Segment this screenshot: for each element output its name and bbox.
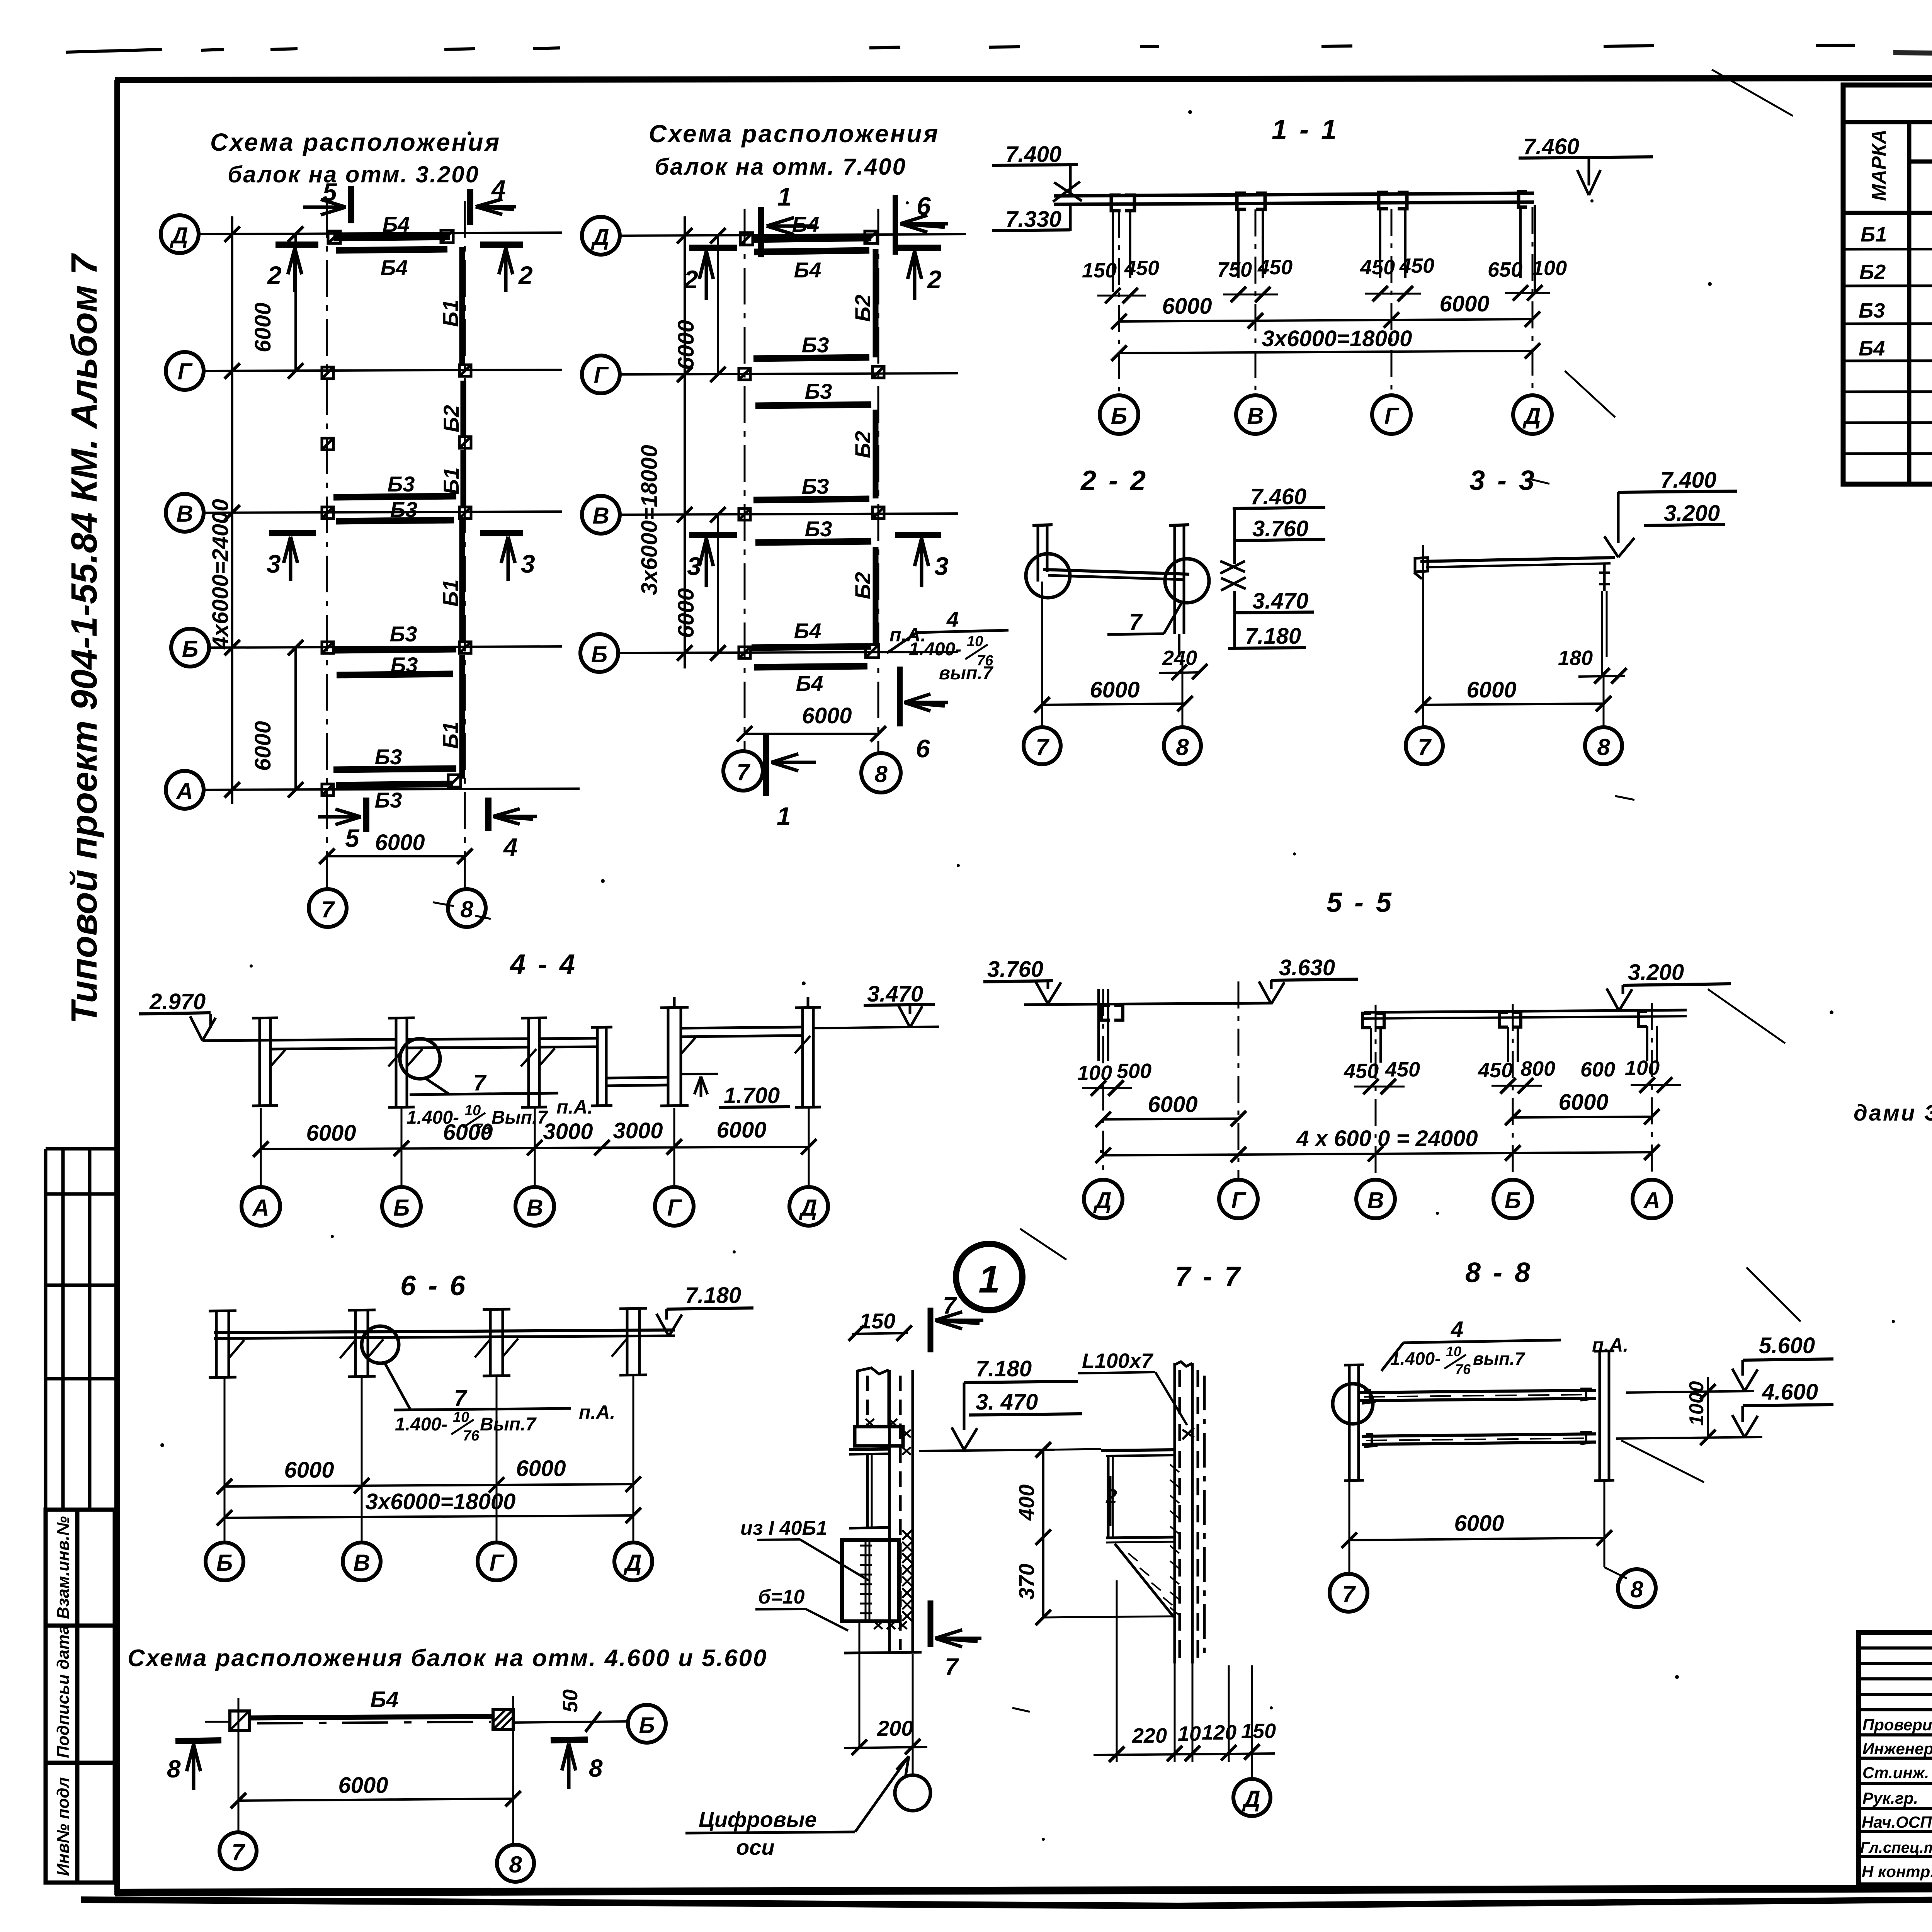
axis circle 8 plan3 [497,1845,534,1882]
svg-text:В: В [176,501,193,527]
axis circle Г sec4-4 [655,1187,694,1226]
svg-text:6000: 6000 [1090,677,1139,702]
svg-text:450: 450 [1399,254,1434,277]
svg-text:7: 7 [945,1654,959,1680]
dim 6000 lower left [294,648,297,790]
beam line top [1054,193,1534,196]
beam Б1 vertical axis8 seg1 [459,247,465,365]
axis circle Г [166,352,204,390]
svg-text:7.180: 7.180 [976,1356,1032,1381]
braces sec4-4 [270,1036,810,1066]
section flag 7 lower [928,1600,934,1647]
svg-text:7.400: 7.400 [1005,142,1061,167]
svg-text:Б3: Б3 [390,622,417,646]
beam Б2 vertical axis8 seg2 [461,381,466,437]
svg-text:Б3: Б3 [390,497,418,522]
svg-text:Проверил: Проверил [1862,1716,1932,1734]
section flag 3 right [480,530,523,536]
axis circle 8 sec3-3 [1585,727,1622,764]
svg-text:Б1: Б1 [1861,223,1887,246]
axis line В [203,512,562,513]
svg-text:Рук.гр.: Рук.гр. [1862,1789,1918,1807]
svg-text:А: А [175,778,193,804]
xxx hatch right strip node1 [902,1530,912,1621]
axis drops sec6-6 [224,1375,633,1542]
section flag 4 bottom [485,798,492,831]
bottom plate sec7-7 [1106,1537,1175,1538]
svg-text:6000: 6000 [1454,1511,1504,1536]
svg-text:800: 800 [1520,1057,1555,1080]
beam left sec7-7 [1101,1450,1175,1451]
axis line Д [620,234,966,236]
dim line 3x6000=18000 [684,216,686,668]
axis circle Г sec1-1 [1372,395,1411,434]
svg-text:Б: Б [639,1713,655,1738]
svg-text:6000: 6000 [516,1456,566,1481]
column bottom end node1 [844,1652,922,1653]
svg-text:1.400-: 1.400- [1390,1349,1440,1369]
table header lines [1843,122,1932,484]
left margin stamp boxes lower [46,1510,115,1883]
svg-text:10: 10 [967,633,983,650]
columns below beam sec1-1 [1113,205,1535,294]
beam Г-Д upper [682,1027,802,1028]
axis line А [203,789,580,790]
svg-text:3: 3 [267,549,281,578]
axis circle Г sec6-6 [478,1543,515,1580]
svg-text:МАРКА: МАРКА [1868,129,1890,201]
svg-text:5: 5 [345,824,360,852]
svg-text:6000: 6000 [802,703,852,728]
svg-text:7: 7 [736,759,750,785]
svg-text:Г: Г [667,1195,683,1221]
section flag 6 bottom [897,667,903,726]
ext verticals sec7-7 [1116,1580,1118,1762]
section flag 1 top [758,207,764,257]
beam 1 sec8-8 [1360,1390,1596,1393]
svg-text:650: 650 [1488,258,1522,281]
svg-text:Инженер: Инженер [1862,1740,1932,1758]
column Б sec4-4 [388,1017,415,1107]
svg-text:Г: Г [594,362,609,388]
svg-text:4 - 4: 4 - 4 [509,949,577,980]
svg-text:600: 600 [1580,1058,1615,1081]
svg-text:дами Э42 по ГОСТ 9467-75.: дами Э42 по ГОСТ 9467-75. [1854,1100,1932,1126]
braces sec6-6 [229,1338,627,1358]
dim 6000 bottom plan1 [327,855,465,857]
axis circle 8 plan1 [448,889,486,927]
svg-text:450: 450 [1385,1058,1420,1081]
svg-text:1: 1 [777,802,791,830]
beam Б4 plan2 row Д upper [752,238,871,240]
svg-text:6000: 6000 [673,588,699,638]
table row lines [1843,248,1932,454]
svg-text:Типовой проект 904-1-55.84 КМ.: Типовой проект 904-1-55.84 КМ. Альбом 7 [64,253,105,1024]
axis line 7 sec3-3 [1422,545,1424,726]
svg-text:7: 7 [943,1293,957,1319]
svg-text:6 - 6: 6 - 6 [400,1270,468,1301]
svg-text:370: 370 [1014,1564,1039,1600]
svg-text:7.460: 7.460 [1523,134,1579,159]
svg-text:Б3: Б3 [375,745,402,769]
svg-text:Б3: Б3 [802,333,829,357]
vertical axis 7 dash-dot [326,201,328,891]
svg-text:3000: 3000 [543,1119,593,1144]
svg-text:из I 40Б1: из I 40Б1 [740,1517,827,1539]
ext lines node1 [859,1623,861,1747]
svg-text:6000: 6000 [443,1120,493,1145]
section flag 2 right plan2 [895,245,941,251]
node circle left sec2-2 [1026,554,1070,598]
svg-text:Б1: Б1 [439,467,463,495]
svg-text:8: 8 [1176,734,1189,760]
svg-text:7 - 7: 7 - 7 [1175,1261,1242,1292]
dim 6000 row sec1-1 [1119,319,1532,321]
svg-text:6000: 6000 [1148,1092,1197,1117]
xxx hatch bottom node1 [874,1621,907,1629]
svg-text:3х6000=18000: 3х6000=18000 [1262,326,1412,351]
svg-text:Б2: Б2 [1859,260,1886,284]
svg-text:Б2: Б2 [850,572,875,599]
beam Б4 plan2 row Б lower [754,666,867,667]
svg-text:б=10: б=10 [758,1586,804,1608]
svg-text:Д: Д [623,1550,641,1576]
svg-text:450: 450 [1344,1060,1379,1083]
beam Б3 row Б upper [333,649,456,650]
svg-text:Б4: Б4 [794,619,821,643]
svg-text:Б4: Б4 [796,671,823,696]
svg-text:8: 8 [460,896,473,922]
beam Б1 vertical axis8 seg3 [461,450,466,508]
vertical axis 8 plan2 [878,209,879,753]
section flag 8 right plan3 [551,1740,588,1740]
channel clips at columns [1111,192,1527,211]
axis dashdot sec5-5 [1103,981,1652,1180]
svg-text:8 - 8: 8 - 8 [1465,1257,1532,1288]
svg-text:оси: оси [736,1835,775,1859]
svg-text:3.470: 3.470 [1252,588,1308,614]
svg-text:Подписьи дата: Подписьи дата [54,1625,73,1758]
svg-text:А: А [252,1195,269,1221]
beam Б3 plan2 row Г lower [755,405,871,406]
svg-text:1000: 1000 [1685,1381,1708,1426]
svg-text:450: 450 [1360,256,1395,279]
svg-text:Б4: Б4 [792,212,820,236]
svg-text:1 - 1: 1 - 1 [1272,114,1339,145]
svg-text:120: 120 [1202,1721,1236,1744]
svg-text:8: 8 [1630,1577,1643,1602]
beam Б1 vertical axis8 seg4 [459,520,465,641]
axis circle В [582,496,620,534]
axis circle 7 sec8-8 [1330,1574,1367,1612]
svg-text:6000: 6000 [338,1773,388,1798]
svg-text:3х6000=18000: 3х6000=18000 [637,445,662,595]
svg-text:Вып.7: Вып.7 [480,1414,537,1435]
svg-text:п.А.: п.А. [556,1096,593,1118]
beam Б2 vertical seg3 plan2 [873,547,879,645]
xxx hatch top node1 [866,1419,911,1455]
svg-text:450: 450 [1124,257,1159,280]
svg-text:Д: Д [1522,403,1541,429]
svg-text:7: 7 [473,1070,487,1095]
svg-text:4: 4 [503,833,518,861]
svg-text:10: 10 [1178,1722,1201,1745]
svg-text:В: В [1247,403,1264,429]
diagonal gusset sec7-7 [1115,1544,1174,1617]
svg-text:3х6000=18000: 3х6000=18000 [366,1489,516,1514]
svg-text:Б3: Б3 [805,379,832,403]
svg-text:7.180: 7.180 [1245,624,1301,649]
main title block [1859,1633,1932,1885]
svg-text:200: 200 [877,1716,913,1740]
svg-text:Схема расположения балок на от: Схема расположения балок на отм. 4.600 и… [128,1645,768,1672]
node label circle 1 [956,1244,1022,1310]
dim 3x6000=18000 sec6-6 [224,1515,633,1518]
svg-text:Цифровые: Цифровые [699,1807,817,1832]
svg-text:150: 150 [859,1309,895,1333]
dim 3x6000=18000 sec1-1 [1119,351,1532,353]
svg-text:8: 8 [167,1755,181,1783]
column Д sec4-4 [795,997,821,1107]
section flag 8 left plan3 [175,1740,221,1741]
svg-text:8: 8 [589,1754,603,1782]
svg-text:3 - 3: 3 - 3 [1469,465,1537,496]
svg-text:2 - 2: 2 - 2 [1080,465,1148,496]
axis circle 7 sec2-2 [1024,727,1061,764]
svg-text:Б1: Б1 [438,721,463,749]
svg-text:3: 3 [934,552,949,580]
axis drops sec8-8 [1349,1481,1350,1573]
svg-text:Б3: Б3 [391,653,418,677]
dim 370 sec7-7 [1042,1537,1044,1617]
svg-text:8: 8 [509,1852,522,1878]
weld label sec6-6 [384,1362,410,1410]
column А sec4-4 [252,1017,278,1106]
channel clips sec5-5 [1101,1005,1647,1028]
svg-text:3.760: 3.760 [987,957,1043,982]
beam sec3-3 [1420,558,1615,561]
svg-text:6000: 6000 [716,1117,766,1143]
svg-text:3. 470: 3. 470 [976,1389,1038,1415]
svg-text:6000: 6000 [284,1458,334,1483]
svg-text:240: 240 [1162,646,1197,670]
section flag 2 right [480,241,523,248]
section flag 2 left [276,241,318,248]
section flag 5 bottom [363,798,369,832]
svg-text:Б2: Б2 [850,294,875,322]
svg-text:Г: Г [1384,403,1400,429]
svg-text:10: 10 [1446,1344,1461,1359]
svg-text:100: 100 [1532,257,1567,280]
svg-text:Б3: Б3 [805,517,832,541]
axis circle В [166,494,204,532]
svg-text:150: 150 [1241,1719,1276,1743]
axis circle 7 plan2 [723,751,763,791]
svg-text:1.700: 1.700 [724,1083,780,1108]
svg-text:7.330: 7.330 [1005,207,1061,232]
svg-text:4х6000=24000: 4х6000=24000 [208,499,233,650]
axis circle Г [582,355,620,393]
svg-text:220: 220 [1132,1724,1167,1747]
svg-text:Б: Б [216,1550,233,1576]
svg-text:7: 7 [1036,734,1049,760]
beam Б4 plan2 row Б upper [752,646,871,648]
axis circle В sec1-1 [1236,395,1275,434]
svg-text:Гл.спец.т.О.: Гл.спец.т.О. [1860,1839,1932,1856]
vertical axis 7 plan2 [744,209,746,752]
beam Б4 plan3 [251,1716,493,1718]
section flag 3 left plan2 [689,532,737,538]
dim 6000 upper left [294,234,297,371]
axis drops sec4-4 [261,1108,809,1186]
svg-text:3000: 3000 [613,1118,663,1143]
svg-text:В: В [353,1550,370,1576]
axis circle Б sec6-6 [206,1543,243,1580]
node circle sec6-6 [362,1326,399,1363]
svg-text:7.400: 7.400 [1660,468,1716,493]
node circle sec4-4 [400,1039,440,1079]
left margin stamp boxes upper [46,1149,115,1510]
svg-text:балок на отм. 3.200: балок на отм. 3.200 [228,162,480,187]
svg-text:1.400-: 1.400- [395,1414,447,1435]
svg-text:6000: 6000 [250,721,276,771]
beam Б3 plan2 row Г upper [753,357,869,359]
svg-text:4: 4 [1451,1317,1463,1342]
axis circle Б sec5-5 [1493,1180,1532,1218]
flange box node1 [855,1427,903,1446]
column В sec6-6 [348,1310,376,1377]
svg-text:Б3: Б3 [375,788,402,812]
axis circle В sec5-5 [1356,1180,1395,1218]
svg-text:6000: 6000 [1162,294,1212,319]
section flag 4 top [467,189,473,225]
svg-text:Б: Б [591,641,607,667]
right square plan3 [493,1709,513,1730]
svg-text:2: 2 [518,261,533,289]
svg-text:Схема расположения: Схема расположения [210,128,501,156]
axis line Г [620,373,958,374]
beam А-Б [202,1039,395,1041]
stiffener sec7-7 [1107,1456,1110,1537]
beam Б4 row Д lower [336,249,447,250]
svg-text:76: 76 [463,1428,480,1444]
axis circle 7 sec3-3 [1406,727,1443,764]
svg-text:А: А [1643,1187,1660,1213]
svg-text:5.600: 5.600 [1759,1333,1815,1358]
axis circle 8 sec8-8 [1618,1569,1656,1607]
svg-text:Д: Д [169,223,188,248]
svg-text:В: В [1367,1187,1384,1213]
beam Б3 row В upper [333,496,456,497]
right column sec8-8 [1594,1350,1614,1481]
frame bottom smudge line [81,1891,1932,1909]
axis circle А [166,771,204,809]
column Г sec6-6 [483,1309,510,1376]
axis circle А sec5-5 [1633,1180,1671,1218]
dim 4x6000=24000 sec5-5 [1103,1152,1652,1155]
beam Б3 plan2 row В upper [753,499,869,500]
svg-text:6000: 6000 [1466,677,1516,702]
dim 6000 bottom plan2 [745,733,878,735]
svg-text:Инв№ подл: Инв№ подл [54,1777,73,1876]
beam Б4 row Д upper [333,237,450,238]
svg-text:балок на отм. 7.400: балок на отм. 7.400 [655,154,906,180]
splice plate node1 [842,1540,899,1621]
axis circle Д [582,217,620,255]
svg-text:Д: Д [590,224,609,250]
svg-text:8: 8 [1597,734,1610,760]
dim line 4x6000=24000 [231,216,233,804]
axis dashdot stubs sec1-1 [1119,207,1532,394]
svg-text:Взам.инв.№: Взам.инв.№ [54,1516,73,1619]
svg-text:100: 100 [1625,1056,1660,1080]
svg-text:6000: 6000 [375,830,425,855]
axis circle Б sec1-1 [1100,395,1138,434]
dims sec4-4 [261,1147,809,1149]
svg-text:Б3: Б3 [1859,299,1885,322]
svg-text:Б1: Б1 [438,299,463,327]
svg-text:500: 500 [1117,1060,1151,1083]
dim 6000 upper left plan2 [717,236,719,374]
beam Б3 plan2 row В lower [755,541,871,543]
svg-text:Н контр.: Н контр. [1862,1862,1932,1881]
section flag 5 top [348,186,354,223]
svg-text:L100х7: L100х7 [1082,1349,1154,1372]
axis line 7 sec2-2 [1041,582,1043,726]
axis circle 8 plan2 [861,753,901,793]
svg-text:Нач.ОСП-1: Нач.ОСП-1 [1862,1813,1932,1831]
beam Б3 row А upper [333,769,456,770]
svg-text:Д: Д [1093,1187,1111,1213]
axis circle Д sec7-7 [1233,1779,1270,1816]
beam Б3 row А lower [336,784,453,785]
svg-text:6000: 6000 [306,1121,356,1146]
svg-text:Ст.инж.: Ст.инж. [1862,1764,1929,1782]
section flag 1 bottom [763,734,769,796]
svg-text:50: 50 [559,1689,582,1713]
small dashes noise [433,479,1932,1712]
axis line 8 sec2-2 [1182,657,1184,726]
axis circle В sec4-4 [515,1187,554,1226]
beam Б3 row Б lower [337,674,453,675]
section flag 2 left plan2 [689,245,737,251]
dims 6000 sec6-6 [224,1484,633,1486]
svg-text:1: 1 [777,182,792,211]
svg-text:6000: 6000 [1558,1090,1608,1115]
svg-text:5 - 5: 5 - 5 [1327,887,1394,918]
left support sec3-3 [1415,558,1428,572]
weld label sec4-4 [425,1078,449,1094]
svg-text:76: 76 [1455,1361,1471,1377]
thin line to circle Б [513,1721,629,1723]
torn top edge marks [66,45,1855,52]
svg-text:3: 3 [521,549,535,578]
svg-text:450: 450 [1478,1059,1513,1082]
beam В-mid [540,1038,597,1039]
svg-text:Вып.7: Вып.7 [492,1107,548,1128]
beam 2 sec8-8 [1362,1434,1596,1436]
axis line Г [203,370,562,371]
svg-text:3: 3 [687,552,701,580]
svg-text:7: 7 [231,1839,245,1865]
axis line 8 sec3-3 [1603,676,1605,726]
svg-text:8: 8 [874,761,888,787]
axis circle 7 plan3 [219,1832,257,1869]
svg-text:Б: Б [182,636,198,662]
svg-text:2.970: 2.970 [149,989,206,1014]
column Б sec6-6 [209,1310,236,1378]
svg-text:10: 10 [453,1409,469,1425]
